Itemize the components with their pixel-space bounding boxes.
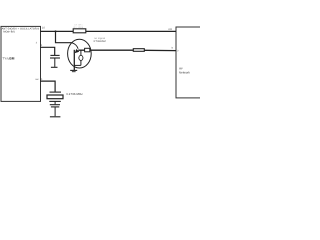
RF network box (right) — [176, 27, 203, 98]
Q1 internal oval — [79, 55, 83, 60]
wire: C1 bottom stem — [54, 58, 56, 67]
Q1 emitter arrow — [75, 49, 79, 53]
wire: C2 to ground — [54, 107, 56, 116]
transistor Q1 — [68, 39, 92, 70]
Y1 bottom plate — [49, 100, 61, 102]
Q1 oval bottom stub — [80, 60, 82, 65]
wire: U1 pin 2 right then down to C1 — [40, 47, 55, 55]
svg-text:R1 100k: R1 100k — [74, 26, 84, 29]
ground bar under C1 — [51, 66, 58, 68]
svg-text:KT368AM: KT368AM — [94, 40, 106, 43]
Q1 collector lead — [72, 43, 78, 49]
ferrite bead FB1 on Q1 output — [85, 48, 90, 52]
capacitor C2 — [50, 104, 60, 106]
capacitor C1 — [50, 54, 59, 56]
Y1 top plate — [50, 91, 62, 93]
ground below Q1 — [70, 69, 77, 71]
ground under C2 — [50, 116, 61, 118]
svg-text:4.1736 MHz: 4.1736 MHz — [66, 92, 83, 96]
wire: crystal to C2 — [54, 101, 56, 104]
resistor R1 — [73, 29, 86, 33]
resistor R2 — [133, 49, 144, 52]
wire: top rail U1 pin to RF box — [40, 30, 176, 32]
wire: junction down and right to Q1 collector — [56, 31, 73, 42]
svg-text:TY/uBM: TY/uBM — [2, 56, 15, 60]
svg-text:Network: Network — [179, 71, 191, 75]
Q1 internal node wire — [80, 50, 82, 55]
node junction on rail — [55, 30, 57, 32]
Q1 bottom internal wire — [74, 64, 81, 66]
wire: Q1 output to RF box — [78, 49, 176, 51]
crystal Y1 — [47, 92, 63, 101]
wire: U1 bottom pin to crystal — [40, 81, 55, 92]
Q1 base bar — [73, 50, 75, 70]
IC U1 (left box) — [1, 26, 41, 101]
svg-text:Ant: Ant — [168, 28, 172, 31]
Y1 body — [47, 95, 63, 99]
svg-text:MOd+B/U: MOd+B/U — [3, 31, 15, 34]
Q1 body circle — [68, 39, 92, 68]
